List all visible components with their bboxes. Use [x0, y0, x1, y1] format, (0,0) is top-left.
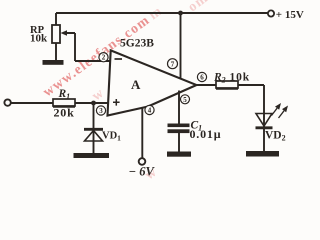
svg-text:6: 6 — [200, 74, 204, 82]
svg-text:4: 4 — [148, 107, 152, 115]
svg-text:A: A — [131, 77, 141, 92]
svg-text:5G23B: 5G23B — [120, 38, 154, 50]
svg-text:10k: 10k — [30, 33, 48, 45]
svg-text:7: 7 — [171, 60, 175, 68]
svg-text:20k: 20k — [54, 106, 75, 120]
svg-text:+ 15V: + 15V — [276, 9, 304, 21]
svg-text:0.01μ: 0.01μ — [190, 127, 222, 141]
svg-text:− 6V: − 6V — [129, 165, 156, 179]
svg-text:R2 10k: R2 10k — [213, 72, 250, 85]
svg-text:3: 3 — [99, 107, 103, 115]
svg-text:2: 2 — [102, 54, 106, 62]
svg-text:5: 5 — [183, 96, 187, 104]
